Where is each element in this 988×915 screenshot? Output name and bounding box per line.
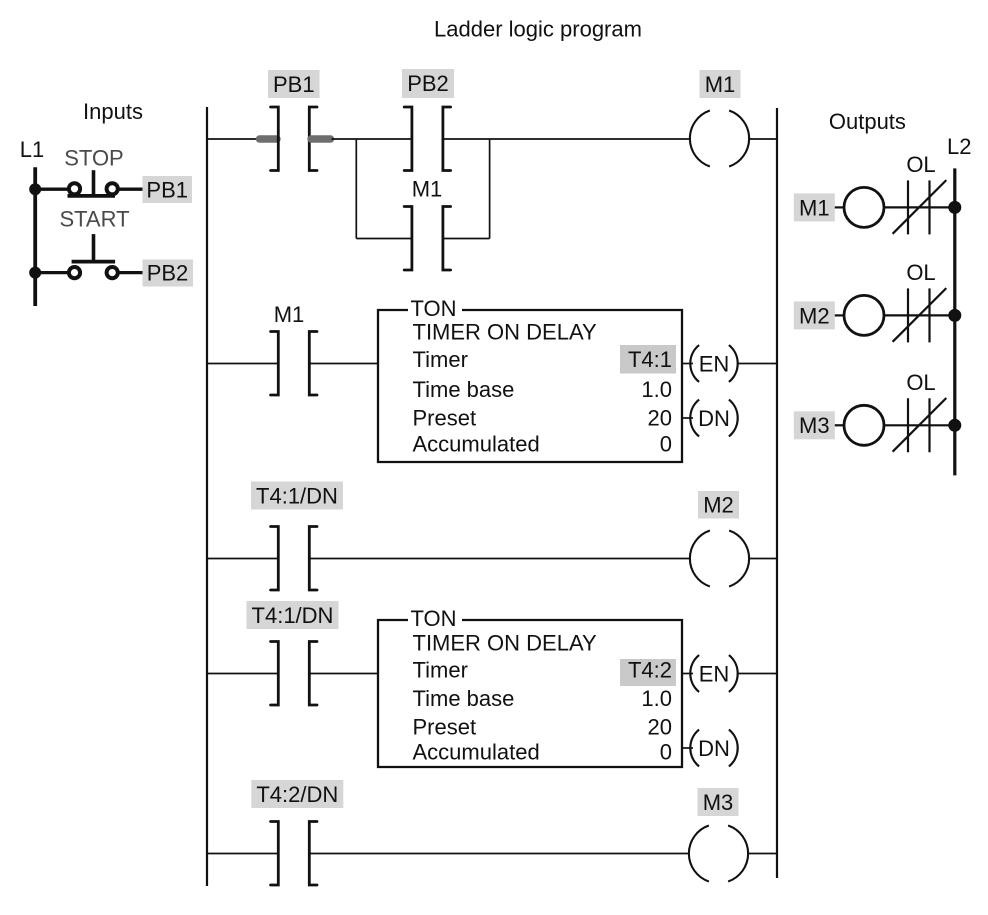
- output tag M1: [794, 193, 835, 221]
- svg-text:OL: OL: [906, 152, 935, 177]
- rung 3 wire: rail to T4:1/DN contact: [207, 558, 278, 560]
- coil M2: [690, 531, 749, 587]
- motor starter coil M2 circle: [844, 295, 884, 335]
- highlight T4:2: [620, 659, 676, 686]
- wire M2 circle to L2 rail: [884, 314, 955, 316]
- coil DN of T4:1: [690, 400, 737, 437]
- svg-text:PB2: PB2: [147, 261, 189, 286]
- contact PB2 (examine-on): [404, 107, 450, 171]
- junction dot M3/L2: [948, 419, 961, 432]
- svg-text:L1: L1: [20, 137, 44, 162]
- wire L1 rail to STOP button: [35, 188, 69, 191]
- wire L1 rail to START button: [35, 271, 69, 274]
- junction dot L1/PB1: [29, 183, 41, 195]
- svg-text:PB1: PB1: [146, 177, 188, 202]
- svg-text:TON: TON: [411, 296, 457, 321]
- pushbutton PB2 terminal circle left: [69, 267, 80, 278]
- rung 2 wire: rail to M1 contact: [207, 363, 278, 365]
- branch right vertical wire: [489, 139, 491, 239]
- wire coil M3 to right rail: [748, 853, 778, 855]
- output tag M2: [794, 301, 835, 329]
- rung 2 wire: contact to timer box: [309, 363, 378, 365]
- svg-text:M3: M3: [703, 790, 734, 815]
- wire M3 tag to motor circle: [835, 424, 845, 426]
- wire timer box to EN coil: [682, 363, 693, 365]
- svg-text:Timer: Timer: [413, 658, 468, 683]
- svg-text:Preset: Preset: [413, 405, 477, 430]
- coil EN of T4:2: [690, 655, 737, 692]
- svg-text:20: 20: [648, 405, 672, 430]
- ladder right rail: [776, 108, 778, 878]
- pushbutton PB2 terminal circle right: [107, 267, 118, 278]
- coil DN of T4:2: [690, 730, 737, 767]
- svg-text:Accumulated: Accumulated: [413, 740, 540, 765]
- svg-text:M1: M1: [705, 72, 736, 97]
- contact M1 rung 2: [271, 332, 317, 396]
- svg-text:M2: M2: [799, 303, 830, 328]
- contact T4:2/DN rung 5: [271, 822, 317, 886]
- svg-text:20: 20: [648, 714, 672, 739]
- wire timer box 2 to EN coil: [682, 673, 693, 675]
- svg-text:PB2: PB2: [407, 71, 449, 96]
- svg-text:T4:2/DN: T4:2/DN: [256, 782, 338, 807]
- svg-text:1.0: 1.0: [641, 377, 672, 402]
- svg-text:Inputs: Inputs: [83, 99, 143, 124]
- svg-text:0: 0: [660, 740, 672, 765]
- pushbutton PB1 (STOP, NC) bar: [68, 194, 116, 198]
- coil M3: [689, 826, 748, 882]
- pushbutton PB2 (START, NO) stem: [92, 234, 96, 262]
- ladder left rail: [206, 107, 208, 886]
- timer block T4:2 box outline: [378, 620, 682, 767]
- svg-text:TIMER ON DELAY: TIMER ON DELAY: [413, 320, 598, 345]
- wire STOP button to PB1 tag: [118, 188, 143, 191]
- branch wire left of M1 contact: [356, 238, 412, 240]
- svg-text:Ladder logic program: Ladder logic program: [434, 17, 642, 42]
- svg-text:EN: EN: [699, 661, 730, 686]
- tag M1 above coil: [700, 70, 741, 98]
- rung 1 wire: rail to PB1 contact: [207, 138, 258, 140]
- wire M2 tag to motor circle: [835, 314, 845, 316]
- wire M3 circle to L2 rail: [884, 424, 955, 426]
- tag T4:1/DN above rung 3 contact: [251, 482, 343, 510]
- branch wire right of M1 contact: [443, 238, 490, 240]
- svg-text:M2: M2: [703, 493, 734, 518]
- rung 5 wire: contact to coil M3: [309, 853, 690, 855]
- svg-text:Outputs: Outputs: [829, 109, 906, 134]
- rung 1 wire: PB2 contact to coil M1: [443, 138, 691, 140]
- svg-text:TON: TON: [411, 606, 457, 631]
- junction dot M2/L2: [948, 309, 961, 322]
- svg-text:OL: OL: [906, 260, 935, 285]
- svg-text:M1: M1: [274, 302, 305, 327]
- overload contact OL 3: [893, 398, 947, 452]
- overload contact OL 1: [893, 180, 947, 234]
- junction dot M1/L2: [948, 201, 961, 214]
- tag PB2 above contact: [402, 69, 454, 98]
- timer block T4:1 box outline: [378, 310, 682, 462]
- overload contact OL 2: [893, 288, 947, 342]
- wire coil M1 to right rail: [749, 138, 778, 140]
- svg-text:DN: DN: [698, 406, 730, 431]
- pushbutton PB2 bar: [72, 260, 116, 264]
- coil M1: [690, 111, 749, 167]
- svg-text:M1: M1: [799, 195, 830, 220]
- svg-text:EN: EN: [699, 351, 730, 376]
- wire M1 circle to L2 rail: [884, 206, 955, 208]
- junction dot L1/PB2: [29, 267, 41, 279]
- branch left vertical wire: [355, 139, 357, 239]
- pushbutton PB1 stem: [92, 170, 96, 196]
- L2 supply rail: [953, 168, 956, 475]
- wire EN coil 2 to right rail: [738, 673, 777, 675]
- svg-text:T4:1/DN: T4:1/DN: [256, 483, 338, 508]
- rung 3 wire: contact to coil M2: [309, 558, 691, 560]
- pushbutton PB1 terminal circle left: [69, 183, 80, 194]
- rung 1 wire: PB1 contact to PB2 contact: [332, 138, 412, 140]
- contact PB1 (examine-on): [271, 107, 317, 171]
- svg-text:PB1: PB1: [273, 72, 315, 97]
- rung 5 wire: rail to T4:2/DN contact: [207, 853, 278, 855]
- svg-text:DN: DN: [698, 736, 730, 761]
- tag T4:1/DN above rung 4 contact: [247, 601, 339, 629]
- svg-text:M3: M3: [799, 413, 830, 438]
- wire coil M2 to right rail: [749, 558, 778, 560]
- motor starter coil M1 circle: [844, 187, 884, 227]
- motor starter coil M3 circle: [844, 405, 884, 445]
- svg-text:L2: L2: [947, 134, 971, 159]
- svg-text:START: START: [59, 207, 129, 232]
- svg-text:STOP: STOP: [64, 146, 124, 171]
- wire timer box 2 to DN coil: [682, 747, 693, 749]
- tag M3 above coil: [698, 788, 739, 816]
- wire EN coil to right rail: [738, 363, 777, 365]
- svg-text:Timer: Timer: [413, 347, 468, 372]
- svg-text:Accumulated: Accumulated: [413, 431, 540, 456]
- pushbutton PB1 terminal circle right: [107, 183, 118, 194]
- svg-text:Time base: Time base: [413, 377, 515, 402]
- contact T4:1/DN rung 3: [271, 527, 317, 591]
- svg-text:Preset: Preset: [413, 714, 477, 739]
- rung 4 wire: rail to T4:1/DN contact: [207, 673, 278, 675]
- coil EN of T4:1: [690, 345, 737, 382]
- contact T4:1/DN rung 4: [271, 642, 317, 706]
- svg-text:Time base: Time base: [413, 686, 515, 711]
- rung 1 highlighted wire segment right: [311, 135, 331, 142]
- tag PB1 above contact: [268, 70, 320, 98]
- svg-text:0: 0: [660, 431, 672, 456]
- wire START button to PB2 tag: [118, 271, 143, 274]
- svg-text:OL: OL: [906, 370, 935, 395]
- wire M1 tag to motor circle: [835, 206, 845, 208]
- tag M2 above coil: [698, 491, 739, 519]
- svg-text:T4:1: T4:1: [628, 347, 672, 372]
- svg-text:1.0: 1.0: [641, 686, 672, 711]
- rung 4 wire: contact to timer box: [309, 673, 378, 675]
- L1 supply rail: [33, 167, 37, 306]
- svg-text:T4:1/DN: T4:1/DN: [252, 603, 334, 628]
- input tag PB2: [143, 260, 194, 287]
- output tag M3: [794, 411, 835, 439]
- svg-text:T4:2: T4:2: [628, 658, 672, 683]
- contact M1 seal-in (examine-on): [404, 207, 450, 271]
- svg-text:M1: M1: [412, 177, 443, 202]
- input tag PB1: [143, 176, 193, 203]
- wire timer box to DN coil: [682, 417, 693, 419]
- highlight T4:1: [620, 345, 676, 374]
- rung 1 highlighted wire segment left: [260, 135, 278, 142]
- tag T4:2/DN above rung 5 contact: [251, 780, 343, 808]
- svg-text:TIMER ON DELAY: TIMER ON DELAY: [413, 631, 598, 656]
